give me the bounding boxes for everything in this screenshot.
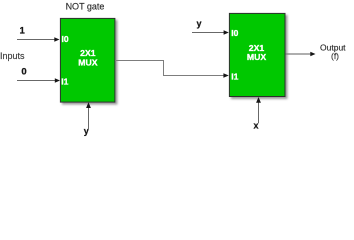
svg-text:I0: I0 [62, 34, 69, 44]
svg-text:1: 1 [20, 25, 26, 36]
wire select x into U2 bottom [256, 97, 261, 123]
svg-text:MUX: MUX [247, 52, 267, 62]
svg-text:I0: I0 [231, 28, 238, 38]
mux U2 body [229, 13, 285, 96]
junction arrowhead into U2 I1 [223, 73, 228, 78]
svg-text:I1: I1 [231, 72, 238, 82]
wire input 1 to U1 I0 [17, 37, 60, 42]
svg-text:y: y [196, 18, 201, 28]
svg-text:0: 0 [21, 66, 26, 77]
wire select y into U1 bottom [86, 102, 91, 129]
svg-text:(f): (f) [331, 51, 339, 61]
wire input y to U2 I0 [192, 30, 229, 35]
wire input 0 to U1 I1 [17, 78, 60, 83]
svg-text:MUX: MUX [78, 58, 98, 68]
svg-text:I1: I1 [61, 76, 68, 86]
wire U1 output to U2 I1 [115, 61, 224, 76]
wire U2 output [286, 52, 316, 57]
svg-text:x: x [253, 121, 258, 131]
svg-text:NOT gate: NOT gate [66, 2, 105, 12]
mux U1 body [60, 18, 115, 102]
svg-text:Inputs: Inputs [0, 51, 25, 61]
